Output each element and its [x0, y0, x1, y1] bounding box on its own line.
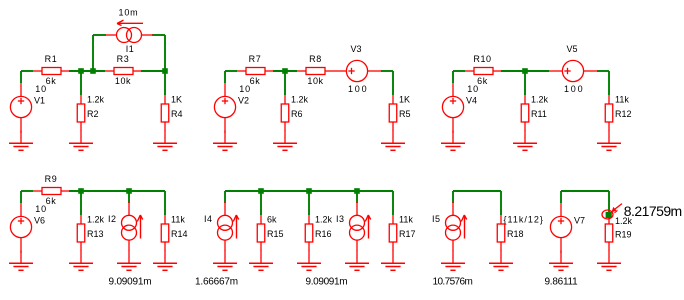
svg-text:6k: 6k — [250, 76, 261, 86]
svg-text:V6: V6 — [34, 216, 45, 226]
svg-text:6k: 6k — [46, 196, 57, 206]
svg-text:{11k/12}: {11k/12} — [504, 215, 544, 225]
svg-text:9.86111: 9.86111 — [545, 277, 579, 288]
svg-text:R8: R8 — [309, 54, 322, 64]
svg-text:R5: R5 — [399, 109, 411, 119]
svg-text:1.66667m: 1.66667m — [195, 277, 238, 288]
svg-text:100: 100 — [348, 84, 368, 94]
svg-text:11k: 11k — [399, 215, 413, 225]
svg-text:I3: I3 — [336, 214, 345, 224]
svg-text:R6: R6 — [291, 109, 303, 119]
svg-text:1.2k: 1.2k — [87, 215, 105, 225]
svg-text:1.2k: 1.2k — [291, 95, 309, 105]
svg-text:I2: I2 — [108, 214, 117, 224]
svg-text:10: 10 — [467, 84, 479, 94]
svg-text:11k: 11k — [171, 215, 185, 225]
svg-text:R17: R17 — [399, 229, 416, 239]
svg-text:V3: V3 — [351, 44, 362, 54]
svg-text:V7: V7 — [574, 216, 585, 226]
svg-text:V5: V5 — [567, 44, 578, 54]
svg-text:R11: R11 — [531, 109, 547, 119]
svg-text:R10: R10 — [473, 54, 491, 64]
svg-text:R19: R19 — [615, 230, 632, 240]
svg-text:R7: R7 — [249, 54, 262, 64]
svg-text:11k: 11k — [615, 95, 629, 105]
svg-text:1.2k: 1.2k — [87, 95, 105, 105]
svg-text:R13: R13 — [87, 229, 104, 239]
svg-text:R1: R1 — [45, 54, 58, 64]
svg-text:R14: R14 — [171, 229, 188, 239]
svg-text:R3: R3 — [117, 54, 130, 64]
svg-text:9.09091m: 9.09091m — [306, 277, 348, 288]
svg-text:100: 100 — [564, 84, 584, 94]
svg-text:10.7576m: 10.7576m — [433, 277, 473, 288]
svg-text:V2: V2 — [238, 96, 249, 106]
svg-text:9.09091m: 9.09091m — [109, 277, 152, 288]
svg-text:6k: 6k — [267, 215, 277, 225]
svg-text:10: 10 — [35, 84, 47, 94]
svg-text:10: 10 — [35, 204, 47, 214]
svg-text:I4: I4 — [204, 214, 213, 224]
svg-text:I5: I5 — [432, 214, 441, 224]
svg-text:R12: R12 — [615, 109, 632, 119]
svg-text:10m: 10m — [119, 8, 139, 18]
svg-text:1K: 1K — [171, 95, 182, 105]
svg-text:1K: 1K — [399, 95, 410, 105]
svg-text:8.21759m: 8.21759m — [624, 203, 682, 219]
svg-text:R4: R4 — [171, 109, 183, 119]
svg-text:R9: R9 — [45, 174, 58, 184]
svg-text:1.2k: 1.2k — [315, 215, 333, 225]
svg-text:V4: V4 — [466, 96, 477, 106]
svg-text:V1: V1 — [34, 96, 45, 106]
svg-text:10: 10 — [239, 84, 251, 94]
svg-text:R16: R16 — [315, 229, 332, 239]
svg-text:R18: R18 — [507, 229, 524, 239]
svg-text:I1: I1 — [126, 44, 135, 54]
svg-text:R15: R15 — [267, 229, 284, 239]
svg-text:1.2k: 1.2k — [531, 95, 549, 105]
svg-text:6k: 6k — [46, 76, 57, 86]
svg-text:10k: 10k — [307, 76, 323, 86]
svg-text:10k: 10k — [115, 76, 131, 86]
svg-text:R2: R2 — [87, 109, 99, 119]
